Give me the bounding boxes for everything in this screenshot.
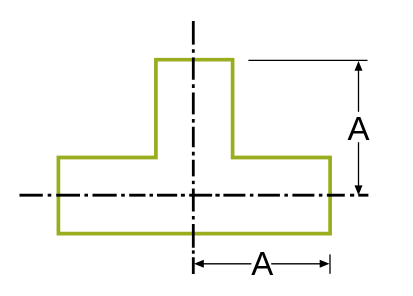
arrowhead up bbox=[355, 61, 363, 71]
horizontal centerline (dash-dot) bbox=[20, 194, 369, 197]
tee profile outline (green T-shape) bbox=[58, 60, 330, 234]
vertical centerline (dash-dot) bbox=[192, 21, 195, 274]
extension line (bottom right, below tee right edge) bbox=[329, 254, 331, 273]
arrowhead left bbox=[194, 260, 204, 268]
dimension line A horizontal (bottom) bbox=[194, 260, 330, 268]
svg-text:A: A bbox=[347, 110, 369, 147]
arrowhead down bbox=[355, 185, 363, 195]
extension line (top, from tee top edge to right) bbox=[248, 59, 367, 61]
dimension line A vertical (right side) bbox=[355, 61, 363, 195]
svg-text:A: A bbox=[251, 245, 273, 282]
arrowhead right bbox=[320, 260, 330, 268]
